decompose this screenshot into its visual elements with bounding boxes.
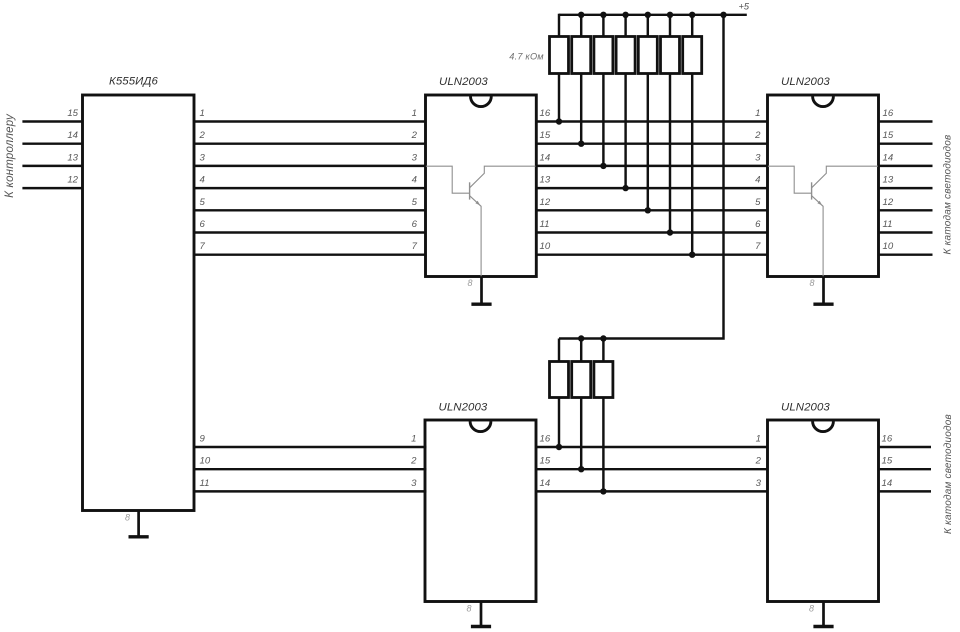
driver U3 ULN2003 body (bottom-left) bbox=[425, 420, 536, 602]
junction R5 / bus wire bbox=[645, 207, 651, 213]
driver U4 ULN2003 body (bottom-right) bbox=[768, 420, 879, 602]
svg-text:6: 6 bbox=[200, 219, 206, 230]
transistor (Darlington driver symbol) inside U2 bbox=[768, 166, 878, 276]
svg-text:14: 14 bbox=[883, 152, 894, 163]
decoder DD1 K555ИД6 body bbox=[83, 95, 195, 511]
wire +5 rail down-feed to lower resistor group bbox=[559, 15, 724, 339]
wire input to K555ID6 pin 15 bbox=[22, 120, 83, 122]
svg-text:14: 14 bbox=[67, 130, 78, 141]
svg-text:9: 9 bbox=[200, 434, 206, 445]
svg-text:2: 2 bbox=[410, 456, 417, 467]
svg-text:7: 7 bbox=[412, 241, 418, 252]
wire U2 pin 11 to LED cathodes bbox=[878, 231, 933, 233]
svg-text:10: 10 bbox=[540, 241, 551, 252]
svg-text:13: 13 bbox=[883, 175, 894, 186]
wire U3 pin 15 to U4 pin 2 bbox=[536, 468, 769, 470]
svg-text:ULN2003: ULN2003 bbox=[439, 76, 488, 88]
resistor R2 4.7k bbox=[572, 37, 591, 74]
wire U2 pin 14 to LED cathodes bbox=[878, 165, 933, 167]
wire U1 pin 15 to U2 pin 2 bbox=[536, 142, 769, 144]
svg-text:3: 3 bbox=[200, 152, 206, 163]
driver U2 ULN2003 body (top-right) bbox=[768, 95, 879, 277]
wire U2 pin 15 to LED cathodes bbox=[878, 142, 933, 144]
svg-text:8: 8 bbox=[466, 604, 471, 614]
wire R10 bottom lead to row pin 14 bbox=[602, 397, 604, 493]
svg-text:1: 1 bbox=[411, 434, 416, 445]
svg-text:4: 4 bbox=[755, 175, 760, 186]
svg-text:11: 11 bbox=[883, 219, 893, 230]
wire input to K555ID6 pin 12 bbox=[22, 187, 83, 189]
junction R4 / bus wire bbox=[622, 185, 628, 191]
resistor R10 4.7k bbox=[594, 362, 613, 398]
ground at U1 pin 8 bbox=[471, 277, 491, 305]
svg-text:ULN2003: ULN2003 bbox=[781, 402, 830, 414]
svg-text:+5: +5 bbox=[739, 2, 750, 12]
ground at U3 pin 8 bbox=[471, 602, 491, 627]
svg-text:15: 15 bbox=[882, 456, 893, 467]
junction R6 / bus wire bbox=[667, 229, 673, 235]
svg-text:1: 1 bbox=[200, 108, 205, 119]
svg-text:16: 16 bbox=[540, 108, 551, 119]
wire R9 bottom lead to row pin 15 bbox=[580, 397, 582, 471]
wire +5 rail to R4 top lead bbox=[624, 14, 626, 38]
resistor R3 4.7k bbox=[594, 37, 613, 74]
junction +5 rail / down-feed bbox=[720, 12, 726, 18]
wire +5 rail to R6 top lead bbox=[669, 14, 671, 38]
wire U1 pin 14 to U2 pin 3 bbox=[536, 165, 769, 167]
svg-text:14: 14 bbox=[540, 478, 551, 489]
svg-text:12: 12 bbox=[540, 197, 551, 208]
wire U2 pin 13 to LED cathodes bbox=[878, 187, 933, 189]
svg-text:1: 1 bbox=[412, 108, 417, 119]
svg-text:14: 14 bbox=[882, 478, 893, 489]
junction +5 rail / R7 bbox=[689, 12, 695, 18]
svg-text:5: 5 bbox=[412, 197, 418, 208]
junction R2 / bus wire bbox=[578, 141, 584, 147]
wire input to K555ID6 pin 14 bbox=[22, 142, 83, 144]
resistor R4 4.7k bbox=[616, 37, 635, 74]
svg-text:2: 2 bbox=[199, 130, 206, 141]
U1 orientation notch bbox=[471, 96, 492, 106]
junction +5 rail / R6 bbox=[667, 12, 673, 18]
resistor R8 4.7k bbox=[550, 362, 569, 398]
wire input to K555ID6 pin 13 bbox=[22, 165, 83, 167]
svg-text:12: 12 bbox=[67, 175, 78, 186]
wire U3 pin 14 to U4 pin 3 bbox=[536, 490, 769, 492]
svg-text:11: 11 bbox=[200, 478, 210, 489]
wire K555ИД6 pin 3 to U1 pin 3 bbox=[193, 165, 427, 167]
wire K555ИД6 pin 4 to U1 pin 4 bbox=[193, 187, 427, 189]
junction +5 rail / R3 bbox=[600, 12, 606, 18]
svg-text:15: 15 bbox=[67, 108, 78, 119]
svg-text:11: 11 bbox=[540, 219, 550, 230]
svg-text:8: 8 bbox=[809, 278, 814, 288]
resistor R6 4.7k bbox=[661, 37, 680, 74]
svg-text:4: 4 bbox=[200, 175, 205, 186]
svg-text:15: 15 bbox=[540, 456, 551, 467]
wire R8 bottom lead to row pin 16 bbox=[558, 397, 560, 449]
svg-text:13: 13 bbox=[540, 175, 551, 186]
ground at U2 pin 8 bbox=[813, 277, 833, 305]
svg-text:3: 3 bbox=[755, 152, 761, 163]
wire K555ИД6 pin 9 to U3 pin 1 bbox=[193, 446, 427, 448]
svg-text:8: 8 bbox=[809, 604, 814, 614]
wire U4 pin 14 to LED cathodes bbox=[878, 490, 931, 492]
svg-text:10: 10 bbox=[883, 241, 894, 252]
svg-text:16: 16 bbox=[540, 434, 551, 445]
wire U2 pin 16 to LED cathodes bbox=[878, 120, 933, 122]
junction +5 rail / R5 bbox=[645, 12, 651, 18]
wire U1 pin 12 to U2 pin 5 bbox=[536, 209, 769, 211]
U2 orientation notch bbox=[813, 96, 834, 106]
svg-text:7: 7 bbox=[200, 241, 206, 252]
wire K555ИД6 pin 6 to U1 pin 6 bbox=[193, 231, 427, 233]
junction R1 / bus wire bbox=[556, 118, 562, 124]
svg-text:К катодам светодиодов: К катодам светодиодов bbox=[943, 414, 954, 534]
transistor (Darlington driver symbol) inside U1 bbox=[426, 166, 536, 276]
svg-text:К контроллеру: К контроллеру bbox=[4, 113, 16, 198]
wire R7 bottom lead to row pin 10 bbox=[691, 73, 693, 256]
junction feed / R9 bbox=[578, 335, 584, 341]
junction R8 / bus wire bbox=[556, 444, 562, 450]
U3 orientation notch bbox=[470, 421, 491, 431]
svg-text:1: 1 bbox=[756, 434, 761, 445]
svg-text:ULN2003: ULN2003 bbox=[439, 402, 488, 414]
wire feed to R8 top lead bbox=[558, 339, 560, 363]
svg-text:2: 2 bbox=[754, 130, 761, 141]
wire U2 pin 10 to LED cathodes bbox=[878, 253, 933, 255]
wire K555ИД6 pin 10 to U3 pin 2 bbox=[193, 468, 427, 470]
svg-text:2: 2 bbox=[411, 130, 418, 141]
wire U3 pin 16 to U4 pin 1 bbox=[536, 446, 769, 448]
svg-text:3: 3 bbox=[411, 478, 417, 489]
wire R4 bottom lead to row pin 13 bbox=[624, 73, 626, 190]
ground at U4 pin 8 bbox=[813, 602, 833, 627]
junction R3 / bus wire bbox=[600, 163, 606, 169]
wire U4 pin 16 to LED cathodes bbox=[878, 446, 931, 448]
wire K555ИД6 pin 11 to U3 pin 3 bbox=[193, 490, 427, 492]
wire K555ИД6 pin 1 to U1 pin 1 bbox=[193, 120, 427, 122]
svg-text:6: 6 bbox=[755, 219, 761, 230]
junction R9 / bus wire bbox=[578, 466, 584, 472]
wire K555ИД6 pin 2 to U1 pin 2 bbox=[193, 142, 427, 144]
svg-text:К катодам светодиодов: К катодам светодиодов bbox=[943, 135, 954, 255]
svg-text:10: 10 bbox=[200, 456, 211, 467]
svg-text:ULN2003: ULN2003 bbox=[781, 76, 830, 88]
svg-text:3: 3 bbox=[756, 478, 762, 489]
svg-text:4.7 кОм: 4.7 кОм bbox=[509, 52, 544, 62]
junction +5 rail / R2 bbox=[578, 12, 584, 18]
svg-text:2: 2 bbox=[755, 456, 762, 467]
svg-text:3: 3 bbox=[412, 152, 418, 163]
wire U1 pin 11 to U2 pin 6 bbox=[536, 231, 769, 233]
resistor R1 4.7k bbox=[550, 37, 569, 74]
wire U2 pin 12 to LED cathodes bbox=[878, 209, 933, 211]
wire +5 rail to R1 top lead bbox=[558, 14, 560, 38]
wire R1 bottom lead to row pin 16 bbox=[558, 73, 560, 123]
svg-text:16: 16 bbox=[882, 434, 893, 445]
svg-text:13: 13 bbox=[67, 152, 78, 163]
wire U1 pin 16 to U2 pin 1 bbox=[536, 120, 769, 122]
wire +5 rail to R5 top lead bbox=[647, 14, 649, 38]
wire R3 bottom lead to row pin 14 bbox=[602, 73, 604, 167]
svg-text:6: 6 bbox=[412, 219, 418, 230]
junction R7 / bus wire bbox=[689, 252, 695, 258]
wire U1 pin 13 to U2 pin 4 bbox=[536, 187, 769, 189]
svg-text:12: 12 bbox=[883, 197, 894, 208]
svg-text:15: 15 bbox=[540, 130, 551, 141]
resistor R5 4.7k bbox=[638, 37, 657, 74]
wire U4 pin 15 to LED cathodes bbox=[878, 468, 931, 470]
wire K555ИД6 pin 5 to U1 pin 5 bbox=[193, 209, 427, 211]
svg-text:1: 1 bbox=[755, 108, 760, 119]
U4 orientation notch bbox=[813, 421, 834, 431]
wire R2 bottom lead to row pin 15 bbox=[580, 73, 582, 145]
wire +5 rail to R7 top lead bbox=[691, 14, 693, 38]
driver U1 ULN2003 body (top-left) bbox=[426, 95, 537, 277]
junction R10 / bus wire bbox=[600, 488, 606, 494]
wire U1 pin 10 to U2 pin 7 bbox=[536, 253, 769, 255]
svg-text:15: 15 bbox=[883, 130, 894, 141]
junction +5 rail / R4 bbox=[622, 12, 628, 18]
junction feed / R10 bbox=[600, 335, 606, 341]
svg-text:5: 5 bbox=[755, 197, 761, 208]
svg-text:4: 4 bbox=[412, 175, 417, 186]
svg-text:14: 14 bbox=[540, 152, 551, 163]
wire feed to R10 top lead bbox=[602, 339, 604, 363]
svg-text:5: 5 bbox=[200, 197, 206, 208]
wire R5 bottom lead to row pin 12 bbox=[647, 73, 649, 212]
resistor R7 4.7k bbox=[683, 37, 702, 74]
svg-text:К555ИД6: К555ИД6 bbox=[109, 76, 158, 88]
svg-text:16: 16 bbox=[883, 108, 894, 119]
svg-text:8: 8 bbox=[467, 278, 472, 288]
wire +5 rail to R3 top lead bbox=[602, 14, 604, 38]
svg-text:8: 8 bbox=[125, 513, 130, 523]
wire feed to R9 top lead bbox=[580, 339, 582, 363]
wire +5 supply rail bbox=[559, 14, 747, 16]
resistor R9 4.7k bbox=[572, 362, 591, 398]
svg-text:7: 7 bbox=[755, 241, 761, 252]
wire +5 rail to R2 top lead bbox=[580, 14, 582, 38]
wire K555ИД6 pin 7 to U1 pin 7 bbox=[193, 253, 427, 255]
wire R6 bottom lead to row pin 11 bbox=[669, 73, 671, 234]
ground at K555ИД6 pin 8 bbox=[129, 511, 149, 537]
